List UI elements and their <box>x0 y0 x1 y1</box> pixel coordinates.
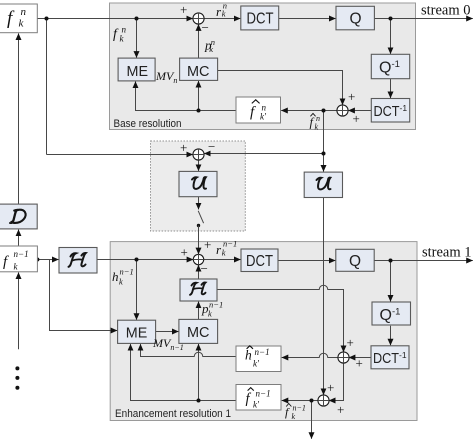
svg-text:k′: k′ <box>260 112 267 122</box>
box H1 <box>59 248 97 274</box>
junction on h wire branch to ME enhancement <box>135 258 139 262</box>
label U1 <box>192 177 206 189</box>
junction on A6 output wire branch down <box>310 399 314 403</box>
box f_k^n-1 <box>0 246 37 272</box>
svg-text:−: − <box>202 20 209 35</box>
junction on base feedback wire branch to MC <box>197 109 201 113</box>
box frame store hhat <box>236 346 281 372</box>
svg-text:+: + <box>353 111 360 126</box>
wire down to Qinv enhancement <box>390 261 392 302</box>
box DCT base <box>241 6 279 30</box>
wire switch to adder A4 <box>198 226 200 255</box>
box ME base <box>118 58 155 81</box>
wire ME to MC enhancement <box>156 331 179 333</box>
box Qinv enhancement <box>372 302 411 325</box>
svg-text:+: + <box>337 402 344 417</box>
box frame store fhat enhancement <box>236 385 281 411</box>
adder A6 <box>318 395 329 406</box>
svg-text:+: + <box>180 2 187 17</box>
box MC enhancement <box>179 319 218 343</box>
box DCT enhancement <box>241 249 278 272</box>
svg-text:n−1: n−1 <box>256 389 271 399</box>
svg-text:k: k <box>119 277 123 287</box>
svg-text:k: k <box>292 412 296 421</box>
junction on reconstruction wire branch down <box>322 109 326 113</box>
adder A2 <box>337 105 348 116</box>
box H2 <box>180 279 217 301</box>
box f_k^n <box>0 4 37 33</box>
wire H2 prediction to adder A5 with hop <box>217 285 344 352</box>
box DCTinv enhancement <box>371 346 409 369</box>
wire A2 to frame store <box>281 110 337 112</box>
wire A5 to h frame store with hop <box>282 353 339 357</box>
wire f_k^n to adder A1 <box>37 18 193 20</box>
svg-text:Q: Q <box>349 253 361 270</box>
svg-text:k: k <box>315 123 319 132</box>
wire down to Qinv base <box>390 19 392 54</box>
svg-text:h: h <box>112 269 119 284</box>
adder A5 <box>338 352 349 363</box>
box U1 <box>179 171 217 196</box>
svg-text:k′: k′ <box>253 359 260 369</box>
wire Qinv to DCTinv enhancement <box>390 326 392 346</box>
wire down into U2 <box>323 154 325 172</box>
svg-text:n−1: n−1 <box>120 267 134 277</box>
wire A4 to DCT enhancement <box>204 259 241 261</box>
wire A5 down to adder A6 <box>329 363 344 401</box>
adder A4 <box>193 254 203 264</box>
box ME enhancement <box>118 320 156 343</box>
wire U2 down to adder A6 <box>323 198 325 395</box>
wire feedback up into MC base <box>198 81 200 111</box>
svg-text:h: h <box>245 348 252 363</box>
dashed interpolation region <box>151 141 246 231</box>
junction at f_k^n-1 box output <box>35 258 39 262</box>
svg-text:+: + <box>348 89 355 104</box>
svg-text:k: k <box>222 9 226 19</box>
box Q enhancement <box>336 249 374 271</box>
svg-text:stream 0: stream 0 <box>421 3 471 19</box>
label D <box>10 210 26 224</box>
svg-text:−: − <box>201 261 208 276</box>
svg-text:Q: Q <box>350 11 362 28</box>
wire feedback up into MC enhancement <box>198 344 200 401</box>
base resolution enclosure <box>110 3 416 130</box>
wire H2 prediction up into A4 <box>198 265 200 279</box>
svg-text:Base resolution: Base resolution <box>114 118 182 130</box>
wire into dashed adder A3 left <box>47 154 193 156</box>
wire h store feedback to ME bottom with hop <box>141 344 237 356</box>
box frame store fhat base <box>236 97 281 123</box>
svg-text:−: − <box>208 139 215 154</box>
svg-text:MC: MC <box>187 324 210 341</box>
wire DCT to Q <box>279 18 336 20</box>
wire Q to stream 0 <box>374 18 472 20</box>
wire to dashed adder A3 right <box>204 153 323 155</box>
wire Q to stream 1 <box>374 260 473 262</box>
svg-text:k: k <box>208 309 212 319</box>
wire DCTinv to adder A2 <box>348 110 371 112</box>
svg-text:k′: k′ <box>253 400 260 410</box>
svg-text:Enhancement resolution 1: Enhancement resolution 1 <box>115 408 231 420</box>
wire f_k^n-1 to H1 <box>37 259 58 261</box>
junction node feeding A3 and U2 <box>322 152 326 156</box>
svg-text:+: + <box>180 140 187 155</box>
wire base frame store feedback to ME bottom <box>136 82 237 111</box>
junction on stream 0 wire branch to Qinv <box>389 17 393 21</box>
svg-text:ME: ME <box>127 63 149 80</box>
wire up into f_k^n-1 box <box>18 272 20 349</box>
box Q base <box>336 6 374 30</box>
enhancement resolution enclosure <box>110 242 417 421</box>
svg-text:MC: MC <box>187 63 210 80</box>
wire f store feedback to ME bottom <box>131 344 237 400</box>
box Qinv base <box>371 54 409 78</box>
wire MC base prediction up into A1 <box>198 24 200 58</box>
wire down from reconstruction node <box>323 111 325 154</box>
wire U1 to switch <box>198 197 200 210</box>
box DCTinv base <box>371 99 409 123</box>
wire D up into f_k^n box <box>18 33 20 204</box>
wire Qinv to DCTinv base <box>390 79 392 98</box>
switch contact <box>197 224 200 227</box>
box D <box>0 204 37 229</box>
wire branch to enhancement ME left <box>50 260 118 331</box>
wire MC prediction to adder A2 top <box>218 71 343 105</box>
svg-text:+: + <box>327 380 334 395</box>
adder A1 <box>193 13 204 24</box>
svg-text:n: n <box>21 6 27 18</box>
wire f_k^n-1 up into D <box>18 230 20 246</box>
svg-text:k: k <box>209 44 213 54</box>
box MC base <box>180 58 218 80</box>
wire MC up into H2 <box>198 302 200 320</box>
svg-text:+: + <box>347 335 354 350</box>
wire A3 into U1 <box>198 160 200 171</box>
junction on f_k^n wire branch to D-path column <box>45 17 49 21</box>
wire branch down to enhancement ME top <box>136 260 138 320</box>
junction on f_k^n wire branch to ME base <box>135 17 139 21</box>
label H1 <box>69 253 86 267</box>
wire DCTinv to adder A5 <box>349 357 371 359</box>
wire DCT to Q enhancement <box>278 260 335 262</box>
svg-text:n−1: n−1 <box>255 347 270 357</box>
wire output down out of enclosure <box>311 401 313 439</box>
adder A3 <box>193 149 204 160</box>
box U2 <box>304 172 342 197</box>
junction on enhancement feedback wire branch to MC <box>197 399 201 403</box>
svg-text:k: k <box>222 248 226 258</box>
wire branch down at x=46.5 <box>46 19 48 155</box>
svg-text:n−1: n−1 <box>14 249 29 259</box>
junction on stream 1 wire branch to Qinv <box>389 259 393 263</box>
svg-text:+: + <box>204 237 211 252</box>
wire A6 to f frame store <box>282 400 319 402</box>
label U2 <box>317 178 331 190</box>
svg-text:+: + <box>356 356 363 371</box>
svg-text:stream 1: stream 1 <box>422 245 472 261</box>
ellipsis dots <box>15 366 19 370</box>
wire H1 to adder A4 <box>97 259 193 261</box>
wire A1 to DCT <box>204 18 241 20</box>
switch blade <box>198 211 203 223</box>
svg-text:DCT: DCT <box>246 253 273 270</box>
svg-text:+: + <box>181 245 188 260</box>
wire branch down to ME base <box>136 19 138 58</box>
label H2 <box>190 282 206 294</box>
svg-text:DCT: DCT <box>247 10 274 27</box>
svg-text:ME: ME <box>126 324 148 341</box>
